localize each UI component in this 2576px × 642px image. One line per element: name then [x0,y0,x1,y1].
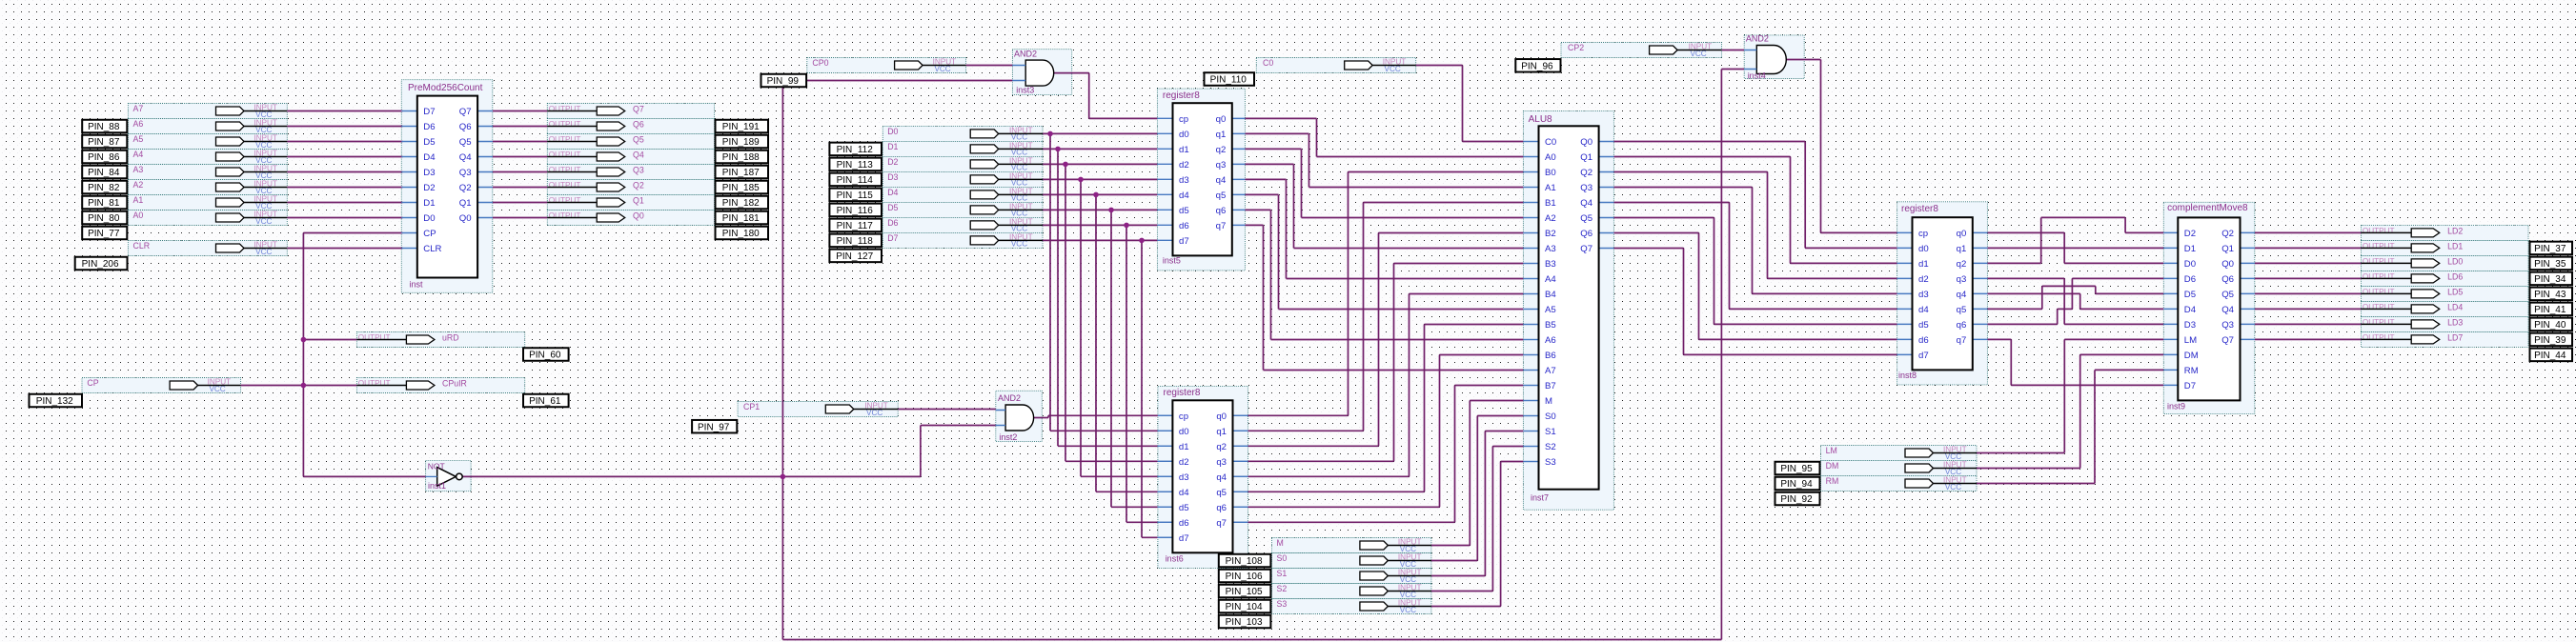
output pin Q7 selection box [547,104,714,119]
svg-text:OUTPUT: OUTPUT [358,333,391,342]
wire CLR stub [403,248,417,250]
pin label box PIN_116 [829,204,882,217]
svg-text:DM: DM [1826,461,1839,471]
svg-text:A5: A5 [133,134,144,144]
svg-text:LM: LM [1826,446,1837,455]
output pin LD6 selection box [2362,271,2529,286]
wire D7 inst5 stub [1157,239,1172,241]
input pin S3 [1277,599,1431,614]
output pin LD1 selection box [2362,240,2529,255]
svg-text:M: M [1545,396,1552,407]
svg-text:d6: d6 [1918,335,1929,346]
pin label box PIN_61 [523,394,569,408]
wire inst8 q6 stub [1973,323,1988,325]
pin label box PIN_181 [716,211,769,225]
junction D3 [1078,177,1084,183]
wire Q0 to output [493,217,548,219]
svg-text:OUTPUT: OUTPUT [549,120,581,129]
wire inst8 d7 stub [1897,353,1913,355]
output pin Q7 [547,105,644,115]
input pin CP1 [743,402,898,417]
junction CP/CPuIR [301,383,307,389]
svg-text:d5: d5 [1179,206,1189,216]
pin label box PIN_81 [82,196,127,210]
svg-text:q1: q1 [1216,427,1227,437]
block inst7 ALU8 [1523,114,1613,503]
output pin Q2 selection box [547,180,714,195]
wire inst5 cp stub [1157,117,1172,119]
input pin S2 [1277,584,1431,599]
input pin RM selection box [1821,476,1978,492]
svg-text:d1: d1 [1179,145,1189,155]
svg-text:D4: D4 [2184,305,2197,315]
wire ALU A0 stub [1523,156,1538,158]
wire inst9 Q stub 3 [2241,277,2255,279]
svg-text:inst3: inst3 [1016,85,1034,94]
wire ALU Q4 stub [1599,202,1614,204]
wire inst8 q1 to inst9 D1 [1987,247,2163,249]
wire inst9 port stub 2 [2163,262,2178,264]
junction D2 [1063,162,1068,168]
pin label box PIN_127 [829,250,882,263]
gate U-inst4 AND2 [1756,46,1786,74]
svg-text:Q3: Q3 [459,168,472,178]
wire inst9 port stub 3 [2163,277,2178,279]
wire inst8 q0 stub [1973,231,1988,233]
svg-text:PIN_34: PIN_34 [2534,274,2566,285]
pin label box PIN_84 [82,166,127,179]
wire inst6 q7 to ALU B7 [1248,386,1524,523]
output pin Q6 selection box [547,119,714,134]
block inst PreMod256Count [401,83,493,290]
wire S2 net [1431,447,1524,592]
wire inst9 port stub 4 [2163,292,2178,294]
output pin Q4 selection box [547,150,714,165]
input pin S1 selection box [1272,569,1431,584]
input pin S2 selection box [1272,584,1431,599]
svg-text:PIN_127: PIN_127 [836,251,873,262]
svg-text:OUTPUT: OUTPUT [549,150,581,159]
wire S0 net [1431,416,1524,561]
svg-text:M: M [1277,538,1284,548]
wire inst8 q2 stub [1973,262,1988,264]
block inst5 register8 selection box [1157,89,1245,271]
junction D0 [1047,131,1053,137]
svg-text:PIN_37: PIN_37 [2534,244,2566,254]
svg-text:Q0: Q0 [459,213,472,224]
svg-text:d6: d6 [1179,221,1189,231]
svg-text:LD1: LD1 [2447,242,2463,251]
output pin LD3 [2362,318,2464,329]
input pin D5 selection box [882,202,1043,217]
wire inst6 q3 to ALU B3 [1248,264,1524,462]
gate inst2 input stubs [996,411,1005,426]
wire Q5 stub [477,141,493,143]
svg-text:Q3: Q3 [2221,320,2234,331]
wire A1 stub [403,202,417,204]
wire inst8 q3 stub [1973,277,1988,279]
label AND2 inst2 title [998,393,1021,403]
svg-text:LD3: LD3 [2447,318,2463,328]
label inst4 [1748,71,1766,81]
wire inst8 q5 to inst9 D5 [1987,286,2163,309]
svg-text:DM: DM [2184,351,2199,361]
svg-text:B1: B1 [1545,198,1556,209]
block inst7 ALU8 selection box [1523,110,1613,510]
svg-text:Q5: Q5 [633,135,644,145]
wire inst9 Q out LD0 [2255,262,2362,264]
wire M net [1431,401,1524,546]
output pin Q0 [547,211,644,222]
svg-text:A5: A5 [1545,305,1556,315]
gate inst1 NOT [426,468,463,487]
wire inst3 upper stub [1012,65,1025,67]
output pin Q5 selection box [547,134,714,150]
output pin Q1 selection box [547,195,714,211]
wire inst8 q7 stub [1973,338,1988,340]
junction D4 [1093,192,1099,198]
svg-text:A3: A3 [1545,244,1556,254]
svg-text:PIN_99: PIN_99 [767,76,800,87]
svg-text:D5: D5 [887,203,898,212]
svg-text:PIN_88: PIN_88 [88,122,120,132]
input pin A0 selection box [128,211,287,226]
pin label box PIN_185 [716,181,769,194]
svg-text:ALU8: ALU8 [1529,114,1552,125]
wire S3 net [1431,462,1524,607]
wire ALU S2 stub [1523,446,1538,448]
input pin C0 [1263,58,1416,73]
input pin CP0 [812,58,965,73]
wire D2 inst6 stub [1158,460,1173,462]
input pin CP selection box [82,378,241,393]
input pin S0 selection box [1272,553,1431,569]
output pin LD0 selection box [2362,255,2529,271]
svg-text:cp: cp [1918,229,1928,239]
input pin D0 [887,127,1043,142]
svg-text:PIN_116: PIN_116 [837,206,874,216]
svg-text:Q2: Q2 [2221,229,2234,239]
wire S1 net [1431,431,1524,576]
wire inst8 q3 to inst9 D3 [1987,278,2163,324]
svg-text:S3: S3 [1277,599,1288,609]
svg-text:inst5: inst5 [1163,256,1181,266]
wire ALU C0 stub [1523,141,1538,143]
wire ALU S1 stub [1523,431,1538,432]
svg-text:d3: d3 [1918,290,1929,300]
input pin D0 selection box [882,126,1043,141]
wire inst9 port stub 5 [2163,308,2178,310]
svg-text:PIN_181: PIN_181 [722,213,760,224]
wire D0 inst6 stub [1158,430,1173,431]
wire Q4 stub [477,156,493,158]
pin label box PIN_43 [2530,288,2573,301]
svg-text:LD4: LD4 [2447,303,2463,312]
wire inst6 q2 stub [1233,445,1248,447]
wire ALU Q7 stub [1599,248,1614,250]
wire inst9 Q out LD7 [2255,338,2362,340]
pin label box PIN_80 [82,211,127,225]
svg-text:OUTPUT: OUTPUT [549,211,581,220]
svg-text:q7: q7 [1216,221,1227,231]
wire inst9 port stub 8 [2163,353,2178,355]
wire inst9 Q out LD6 [2255,277,2362,279]
svg-text:q2: q2 [1957,259,1967,270]
wire inst5 q0 to ALU A0 [1245,118,1523,156]
output pin Q6 [547,120,644,130]
input pin A7 [133,104,288,119]
svg-text:PIN_44: PIN_44 [2534,351,2566,361]
wire inst6 q6 to ALU B6 [1248,355,1524,508]
svg-text:PIN_41: PIN_41 [2534,305,2566,315]
svg-text:D6: D6 [2184,274,2196,285]
svg-text:d6: d6 [1179,518,1189,529]
wire A4 to D4 [287,156,402,158]
output pin LD7 selection box [2362,331,2529,347]
svg-text:Q2: Q2 [459,183,472,193]
wire ALU A6 stub [1523,339,1538,341]
pin label box PIN_188 [716,150,769,164]
svg-text:LD7: LD7 [2447,333,2463,343]
wire inst4 upper stub [1744,50,1756,51]
svg-text:q4: q4 [1216,472,1227,483]
pin label box PIN_189 [716,135,769,149]
svg-text:S2: S2 [1277,584,1288,593]
output pin Q0 selection box [547,211,714,226]
pin label box PIN_77 [82,227,127,240]
wire D2 inst5 stub [1157,163,1172,165]
input pin M [1277,538,1431,553]
pin label box PIN_115 [829,189,882,202]
input pin M selection box [1272,538,1431,553]
input pin A6 selection box [128,119,287,134]
svg-text:LD5: LD5 [2447,288,2463,297]
svg-text:complementMove8: complementMove8 [2167,203,2248,213]
wire inst8 q0 to inst9 D0 [1987,232,2163,263]
pin label box PIN_113 [829,158,882,171]
wire inst3 lower stub [1012,80,1025,82]
svg-text:Q2: Q2 [633,181,644,191]
wire inst5 q6 stub [1232,209,1246,211]
svg-text:D7: D7 [2184,381,2196,391]
svg-text:D2: D2 [887,157,898,167]
svg-text:CPuIR: CPuIR [442,379,467,389]
svg-text:Q4: Q4 [2221,305,2234,315]
wire Q2 to output [493,187,548,189]
wire inst5 q7 to ALU A7 [1245,225,1523,370]
wire ALU Q0 to inst8 d0 [1613,142,1897,249]
wire inst9 Q out LD4 [2255,308,2362,310]
svg-text:PIN_185: PIN_185 [722,183,760,193]
svg-text:A4: A4 [133,150,144,159]
wire A6 to D6 [287,126,402,128]
wire inst9 port stub 1 [2163,247,2178,249]
svg-text:A2: A2 [1545,213,1556,224]
wire Q7 stub [477,110,493,112]
svg-text:OUTPUT: OUTPUT [2363,303,2395,311]
svg-text:inst1: inst1 [428,481,446,491]
wire inst5 q3 stub [1232,163,1246,165]
block inst5 register8 [1157,90,1245,266]
svg-text:q5: q5 [1957,305,1967,315]
wire inst9 Q out LD1 [2255,247,2362,249]
input pin A7 selection box [128,104,287,119]
gate inst3 AND2 selection box [1012,50,1071,95]
svg-text:AND2: AND2 [998,393,1021,403]
pin label box PIN_97 [692,420,737,433]
svg-text:PIN_182: PIN_182 [722,198,760,209]
input pin CP0 selection box [807,58,966,73]
svg-text:d1: d1 [1918,259,1929,270]
svg-text:d7: d7 [1179,533,1189,544]
pin label box PIN_117 [829,219,882,232]
output pin LD5 [2362,288,2464,298]
svg-text:CP2: CP2 [1568,43,1584,52]
input pin RM [1826,476,1977,492]
svg-text:q2: q2 [1216,442,1227,452]
label inst3 [1016,85,1034,94]
svg-text:Q4: Q4 [633,150,644,160]
svg-text:LM: LM [2184,335,2197,346]
junction CP/uRD [301,337,307,343]
output pin Q5 [547,135,644,146]
svg-text:q0: q0 [1957,229,1967,239]
wire inst8 q5 stub [1973,308,1988,310]
wire inst5 q7 stub [1232,224,1246,226]
wire C0 net [1416,66,1524,142]
wire ALU A7 stub [1523,370,1538,371]
svg-text:S2: S2 [1545,442,1556,452]
gate inst1 NOT selection box [426,461,472,492]
svg-text:d3: d3 [1179,175,1189,186]
input pin A0 [133,211,288,226]
pin label box PIN_86 [82,150,127,164]
wire A2 stub [403,187,417,189]
pin label box PIN_106 [1219,570,1271,583]
wire A1 to D1 [287,202,402,204]
block inst9 complementMove8 selection box [2163,202,2255,413]
output pin Q2 [547,181,644,191]
wire CLR net [287,248,402,250]
svg-text:CP: CP [87,378,98,388]
wire inst9 port stub 9 [2163,369,2178,371]
wire CP port stub [403,232,417,234]
wire ALU B2 stub [1523,232,1538,234]
wire Q6 to output [493,126,548,128]
svg-text:Q1: Q1 [459,198,472,209]
block inst8 register8 selection box [1897,202,1988,385]
pin label box PIN_114 [829,173,882,187]
pin label box PIN_37 [2530,242,2573,255]
pin label box PIN_95 [1775,462,1820,475]
svg-text:A7: A7 [133,104,144,113]
svg-text:A7: A7 [1545,366,1556,376]
input pin D7 [887,233,1043,249]
svg-text:PIN_82: PIN_82 [88,183,120,193]
svg-text:Q6: Q6 [459,122,472,132]
svg-text:PIN_110: PIN_110 [1210,75,1247,86]
junction NOT output [781,474,786,480]
output pin LD4 [2362,303,2464,313]
wire inst8 d3 stub [1897,292,1913,294]
wire D1 inst5 stub [1157,148,1172,150]
svg-text:inst8: inst8 [1898,371,1917,380]
wire ALU B1 stub [1523,202,1538,204]
wire inst8 d4 stub [1897,308,1913,310]
pin label box PIN_104 [1219,600,1271,613]
wire ALU Q6 stub [1599,232,1614,234]
pin label box PIN_118 [829,234,882,248]
svg-text:D3: D3 [887,172,898,182]
wire A6 stub [403,126,417,128]
wire A0 stub [403,217,417,219]
svg-text:Q1: Q1 [2221,244,2234,254]
wire inst8 q4 stub [1973,292,1988,294]
pin label box PIN_191 [716,120,769,133]
svg-text:CLR: CLR [133,241,151,251]
svg-text:PIN_97: PIN_97 [698,422,730,432]
svg-text:PIN_84: PIN_84 [88,168,120,178]
svg-text:Q6: Q6 [1580,229,1592,239]
input pin CP [87,378,240,393]
wire inst6 q0 stub [1233,414,1248,416]
label inst1 [428,481,446,491]
wire inst5 q1 to ALU A1 [1245,133,1523,187]
wire inst5 q2 stub [1232,148,1246,150]
wire inst2 output to inst6 cp [1034,415,1158,417]
wire inst6 q4 to ALU B4 [1248,294,1524,477]
svg-text:OUTPUT: OUTPUT [549,181,581,190]
pin label box PIN_110 [1205,72,1255,86]
svg-text:PIN_80: PIN_80 [88,213,120,224]
pin label box PIN_41 [2530,303,2573,316]
wire inst9 port stub 6 [2163,323,2178,325]
wire inst5 q1 stub [1232,132,1246,134]
pin label box PIN_60 [523,348,569,361]
svg-text:B0: B0 [1545,168,1556,178]
svg-text:q5: q5 [1216,488,1227,498]
svg-text:PIN_112: PIN_112 [837,145,874,155]
svg-text:AND2: AND2 [1746,33,1769,43]
svg-text:B7: B7 [1545,381,1556,391]
output pin LD5 selection box [2362,286,2529,301]
svg-text:q3: q3 [1216,457,1227,468]
wire inst8 q1 stub [1973,247,1988,249]
wire inst9 Q stub 5 [2241,308,2255,310]
input pin LM selection box [1821,446,1978,461]
svg-text:PIN_95: PIN_95 [1780,464,1813,474]
svg-text:q0: q0 [1216,411,1227,422]
wire D5 inst5 stub [1157,209,1172,211]
wire inst3 output to inst5 cp [1053,73,1158,119]
wire inst6 q6 stub [1233,506,1248,508]
svg-text:q4: q4 [1957,290,1967,300]
svg-text:PIN_118: PIN_118 [837,236,874,247]
pin label box PIN_88 [82,120,127,133]
svg-text:PIN_191: PIN_191 [722,122,760,132]
wire D4 inst5 stub [1157,193,1172,195]
svg-text:Q0: Q0 [2221,259,2234,270]
svg-text:PreMod256Count: PreMod256Count [408,83,483,93]
label AND2 inst4 title [1746,33,1769,43]
input pin D7 selection box [882,232,1043,248]
pin label box PIN_87 [82,135,127,149]
wire D7 inst6 stub [1158,536,1173,538]
svg-text:OUTPUT: OUTPUT [549,166,581,174]
svg-text:PIN_92: PIN_92 [1780,494,1813,505]
wire inst5 q5 to ALU A5 [1245,194,1523,309]
wire D6 net [1043,225,1158,522]
